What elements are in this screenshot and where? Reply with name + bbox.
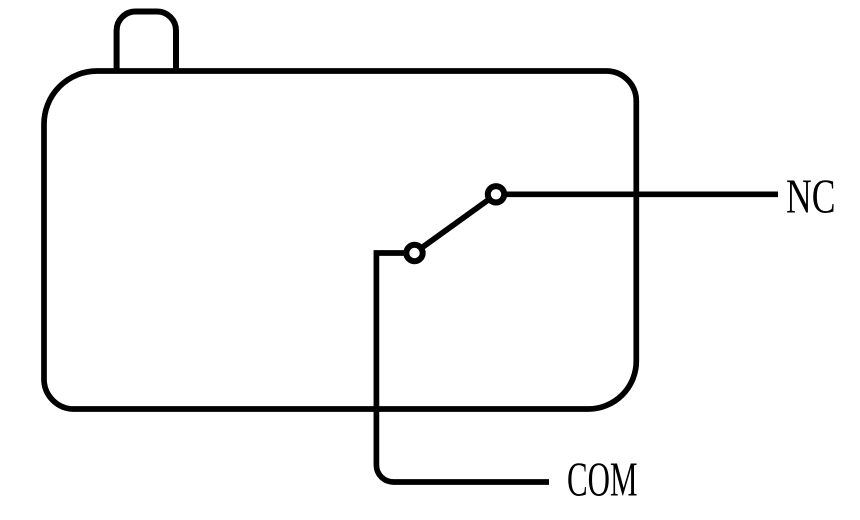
actuator button (117, 12, 176, 72)
switch body SW1 (44, 71, 636, 409)
switch arm (415, 194, 497, 253)
wire NC horizontal run (496, 191, 778, 197)
svg-text:NC: NC (786, 169, 836, 224)
contact circle NC (488, 186, 504, 202)
svg-text:COM: COM (567, 452, 638, 507)
wire COM vertical run (376, 253, 549, 482)
contact circle COM pivot (406, 245, 422, 261)
